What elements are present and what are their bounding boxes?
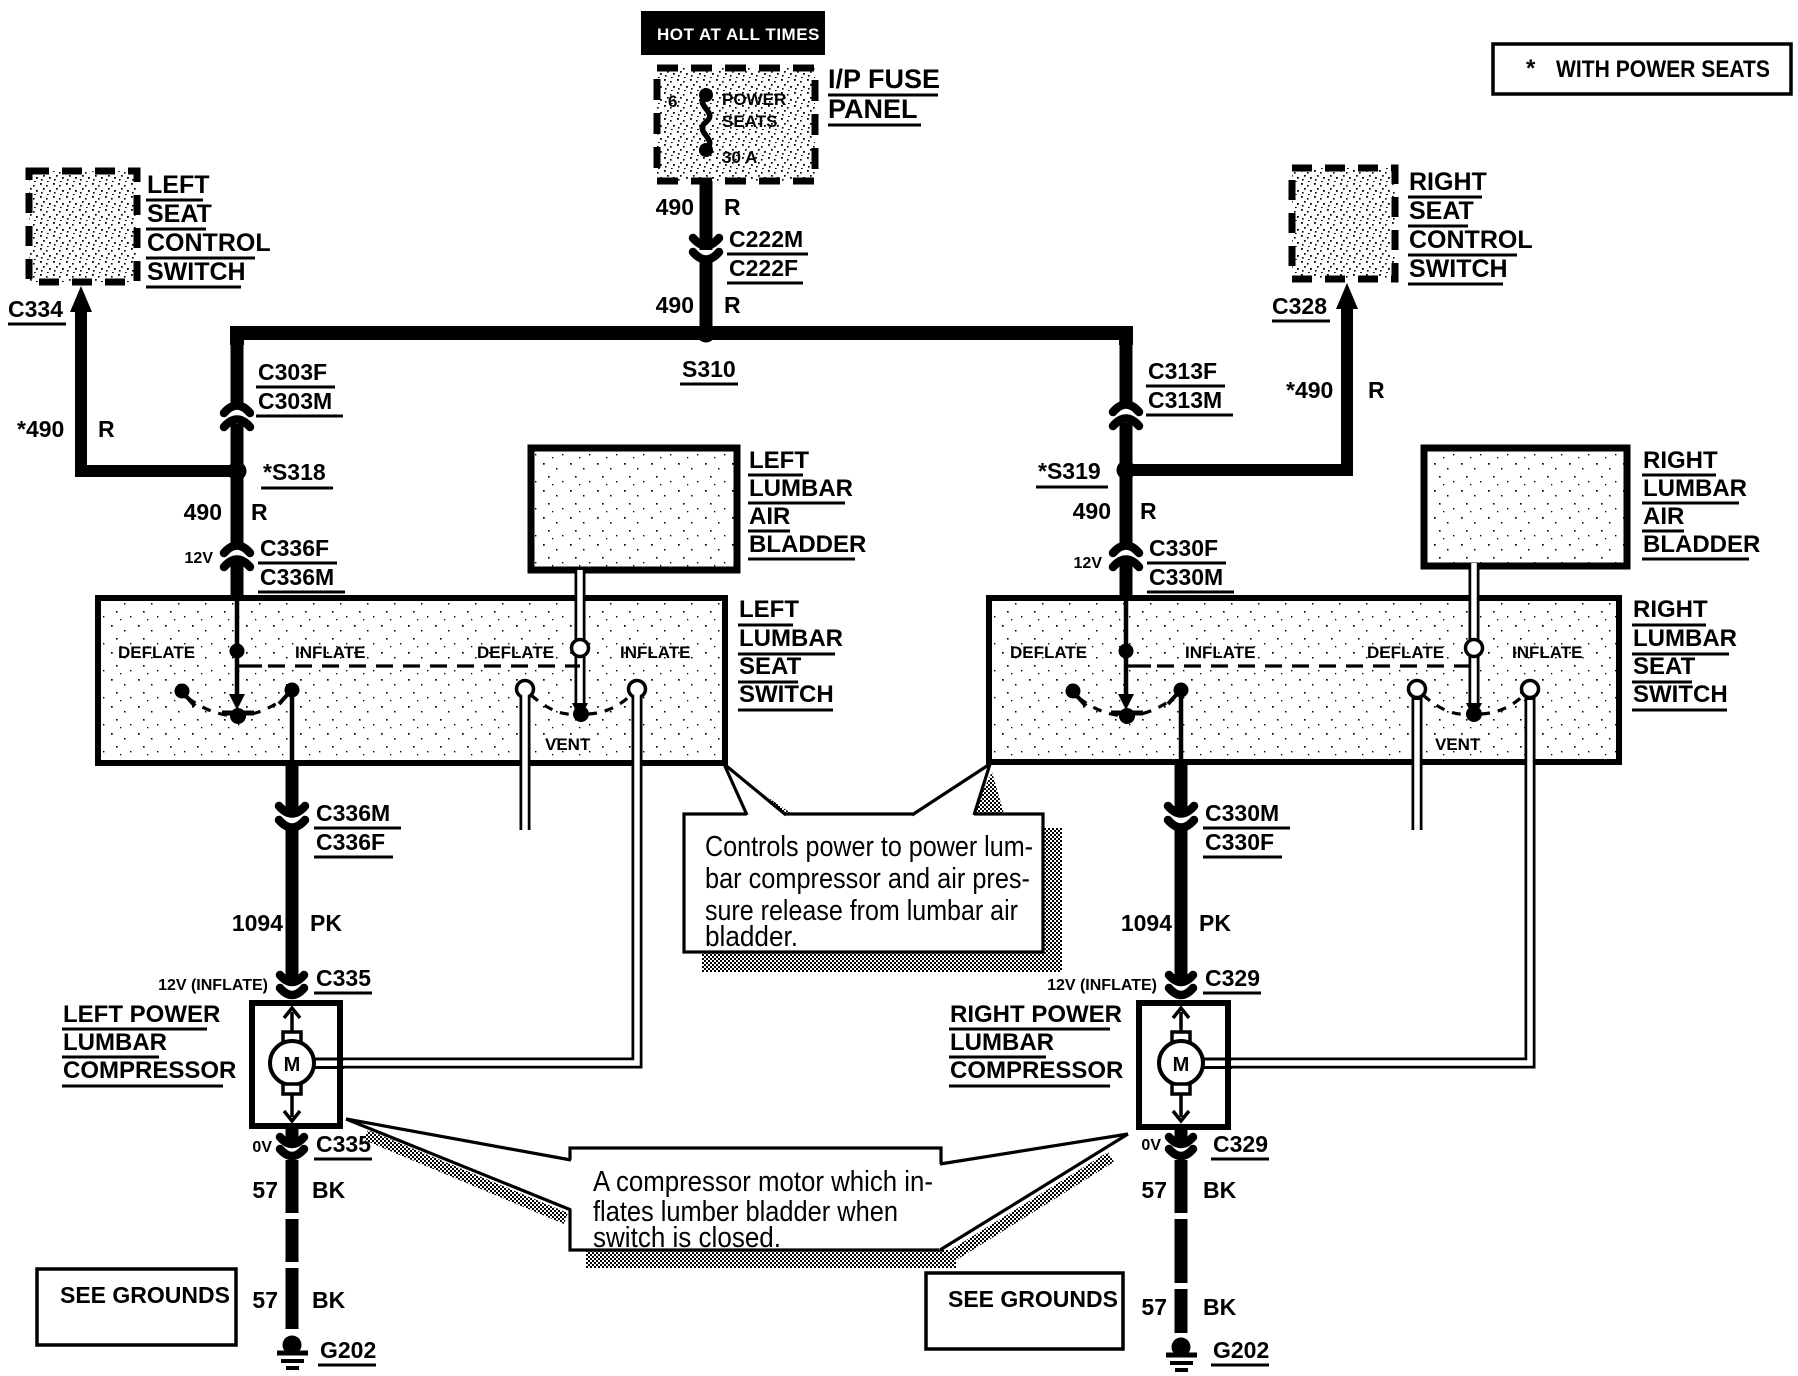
- svg-text:BK: BK: [1203, 1177, 1237, 1203]
- svg-text:switch is closed.: switch is closed.: [593, 1222, 781, 1254]
- svg-text:1094: 1094: [232, 910, 283, 936]
- callout switch function shadow: [702, 772, 1062, 972]
- svg-text:C303M: C303M: [258, 388, 332, 414]
- connector C222M/C222F: [693, 226, 808, 283]
- wire bus drop left: [231, 339, 244, 405]
- svg-text:R: R: [1368, 377, 1385, 403]
- hose left inflate to motor: [311, 694, 637, 1063]
- svg-text:LEFT: LEFT: [739, 596, 799, 623]
- svg-text:SEAT: SEAT: [1633, 653, 1696, 680]
- right lumbar air bladder box: [1424, 447, 1760, 566]
- svg-text:0V: 0V: [252, 1139, 272, 1156]
- svg-text:*: *: [1526, 55, 1536, 82]
- svg-text:G202: G202: [1213, 1337, 1269, 1363]
- connector C335 0V: [252, 1126, 372, 1159]
- connector C303F/C303M: [224, 359, 343, 427]
- svg-text:*S319: *S319: [1038, 458, 1101, 484]
- wire 490 R C222 to S310: [656, 261, 741, 330]
- svg-text:C330F: C330F: [1205, 829, 1274, 855]
- wire *490 R C328 to S319: [1133, 303, 1385, 470]
- node S310: [680, 324, 738, 385]
- svg-text:VENT: VENT: [545, 735, 591, 754]
- hose left bladder to switch: [575, 570, 586, 712]
- left lumbar seat switch box: [98, 596, 843, 763]
- svg-text:COMPRESSOR: COMPRESSOR: [950, 1057, 1123, 1084]
- callout compressor note shadow: [364, 1130, 1114, 1268]
- vent hose right (open): [1412, 697, 1423, 832]
- svg-text:C334: C334: [8, 296, 63, 322]
- svg-text:RIGHT: RIGHT: [1643, 447, 1718, 474]
- fuse element 30A: [668, 88, 786, 167]
- hose right bladder to switch: [1469, 563, 1480, 712]
- svg-text:*S318: *S318: [263, 459, 326, 485]
- see grounds note left: [37, 1269, 236, 1345]
- callout compressor note bubble: [346, 1119, 1128, 1254]
- callout switch function bubble: [684, 764, 1043, 953]
- svg-text:DEFLATE: DEFLATE: [1010, 643, 1087, 662]
- see grounds note right: [926, 1273, 1123, 1349]
- svg-text:LEFT: LEFT: [749, 447, 809, 474]
- svg-text:DEFLATE: DEFLATE: [1367, 643, 1444, 662]
- svg-text:RIGHT POWER: RIGHT POWER: [950, 1001, 1122, 1028]
- svg-text:R: R: [724, 292, 741, 318]
- node S319: [1036, 458, 1136, 487]
- svg-text:57: 57: [1141, 1177, 1167, 1203]
- connector C336F/C336M 12V: [185, 535, 345, 592]
- svg-text:0V: 0V: [1141, 1137, 1161, 1154]
- svg-text:C328: C328: [1272, 293, 1327, 319]
- svg-text:CONTROL: CONTROL: [1409, 226, 1533, 254]
- connector C334 arrow into left switch: [8, 286, 92, 324]
- ground G202 left: [277, 1336, 376, 1369]
- svg-text:490: 490: [656, 292, 694, 318]
- left seat control switch box: [29, 171, 271, 287]
- svg-text:LUMBAR: LUMBAR: [1633, 625, 1737, 652]
- svg-text:BLADDER: BLADDER: [1643, 531, 1760, 558]
- svg-text:57: 57: [252, 1287, 278, 1313]
- svg-text:SEAT: SEAT: [1409, 197, 1474, 225]
- ground G202 right: [1166, 1337, 1269, 1370]
- svg-text:30 A: 30 A: [722, 148, 757, 167]
- svg-text:POWER: POWER: [722, 90, 786, 109]
- bus wire S310: [237, 333, 1126, 345]
- svg-text:C222F: C222F: [729, 255, 798, 281]
- svg-text:C336F: C336F: [260, 535, 329, 561]
- svg-text:SEAT: SEAT: [147, 200, 212, 228]
- svg-text:12V (INFLATE): 12V (INFLATE): [158, 977, 268, 994]
- svg-text:12V (INFLATE): 12V (INFLATE): [1047, 977, 1157, 994]
- vent hose left (open): [520, 694, 531, 832]
- wire 1094 PK to C335: [232, 829, 343, 984]
- wire *490 R C334 to S318: [17, 306, 230, 471]
- motor M right: [1159, 1008, 1232, 1121]
- svg-text:bar compressor and air pres-: bar compressor and air pres-: [705, 863, 1030, 895]
- fuse F6 30A box (I/P fuse panel): [657, 68, 815, 181]
- left lumbar air bladder box: [531, 447, 866, 570]
- svg-text:I/P FUSE: I/P FUSE: [828, 64, 940, 94]
- wire right switch to C330M: [1175, 762, 1188, 816]
- svg-text:R: R: [724, 194, 741, 220]
- wire 490 R S319 to C330: [1073, 477, 1157, 545]
- svg-text:RIGHT: RIGHT: [1633, 596, 1708, 623]
- wire C336 to switch box: [231, 562, 244, 598]
- svg-text:SWITCH: SWITCH: [1409, 255, 1508, 283]
- svg-text:C329: C329: [1205, 965, 1260, 991]
- svg-text:6: 6: [668, 92, 677, 111]
- hose right inflate to motor: [1205, 697, 1530, 1063]
- svg-text:INFLATE: INFLATE: [1185, 643, 1256, 662]
- svg-text:LUMBAR: LUMBAR: [749, 475, 853, 502]
- note with power seats: [1493, 44, 1791, 94]
- svg-text:BK: BK: [1203, 1294, 1237, 1320]
- svg-text:INFLATE: INFLATE: [1512, 643, 1583, 662]
- svg-text:LEFT: LEFT: [147, 171, 210, 199]
- svg-text:C330F: C330F: [1149, 535, 1218, 561]
- svg-text:490: 490: [656, 194, 694, 220]
- svg-text:57: 57: [1141, 1294, 1167, 1320]
- right switch internals: [1010, 598, 1583, 762]
- svg-text:RIGHT: RIGHT: [1409, 168, 1487, 196]
- svg-text:M: M: [1173, 1054, 1190, 1076]
- wire C330 to switch box: [1120, 562, 1133, 598]
- svg-text:BK: BK: [312, 1177, 346, 1203]
- right lumbar seat switch box: [989, 596, 1737, 762]
- wire left switch to C336M: [286, 763, 299, 816]
- connector C329 0V: [1141, 1126, 1269, 1159]
- svg-text:AIR: AIR: [1643, 503, 1684, 530]
- wire 490 R S318 to C336: [184, 478, 268, 545]
- svg-text:C330M: C330M: [1205, 800, 1279, 826]
- svg-text:DEFLATE: DEFLATE: [477, 643, 554, 662]
- svg-text:S310: S310: [682, 356, 736, 382]
- svg-text:C313M: C313M: [1148, 387, 1222, 413]
- svg-text:SEE GROUNDS: SEE GROUNDS: [948, 1286, 1118, 1312]
- wire 57 BK to ground: [252, 1160, 345, 1329]
- left switch internals: [118, 598, 691, 763]
- svg-text:R: R: [1140, 498, 1157, 524]
- svg-text:COMPRESSOR: COMPRESSOR: [63, 1057, 236, 1084]
- svg-text:SWITCH: SWITCH: [739, 681, 834, 708]
- svg-text:WITH POWER SEATS: WITH POWER SEATS: [1556, 56, 1770, 83]
- wire 1094 PK to C329: [1121, 829, 1232, 984]
- node S318: [228, 459, 334, 488]
- svg-text:bladder.: bladder.: [705, 921, 798, 953]
- svg-text:C335: C335: [316, 1131, 371, 1157]
- wire C303 to S318: [231, 424, 244, 464]
- svg-text:LUMBAR: LUMBAR: [1643, 475, 1747, 502]
- connector C330M/C330F lower: [1168, 800, 1290, 857]
- right power lumbar compressor box: [949, 1001, 1228, 1127]
- wire 490 R fuse to C222: [656, 181, 741, 250]
- connector C313F/C313M: [1113, 358, 1233, 426]
- svg-text:HOT AT ALL TIMES: HOT AT ALL TIMES: [657, 25, 820, 44]
- svg-text:BLADDER: BLADDER: [749, 531, 866, 558]
- svg-text:C222M: C222M: [729, 226, 803, 252]
- svg-text:PANEL: PANEL: [828, 94, 918, 124]
- svg-text:CONTROL: CONTROL: [147, 229, 271, 257]
- svg-text:SEE GROUNDS: SEE GROUNDS: [60, 1282, 230, 1308]
- svg-text:*490: *490: [1286, 377, 1333, 403]
- svg-text:PK: PK: [1199, 910, 1231, 936]
- connector C329 12V inflate: [1047, 965, 1261, 995]
- svg-text:C329: C329: [1213, 1131, 1268, 1157]
- svg-text:A compressor motor which in-: A compressor motor which in-: [593, 1166, 933, 1198]
- connector C335 12V inflate: [158, 965, 372, 995]
- svg-text:C313F: C313F: [1148, 358, 1217, 384]
- svg-text:LUMBAR: LUMBAR: [950, 1029, 1054, 1056]
- right seat control switch box: [1292, 168, 1533, 284]
- svg-text:C330M: C330M: [1149, 564, 1223, 590]
- connector C330F/C330M 12V: [1074, 535, 1234, 592]
- svg-text:SWITCH: SWITCH: [1633, 681, 1728, 708]
- svg-text:C336M: C336M: [316, 800, 390, 826]
- svg-text:LUMBAR: LUMBAR: [739, 625, 843, 652]
- svg-text:SEATS: SEATS: [722, 112, 777, 131]
- svg-text:490: 490: [184, 499, 222, 525]
- svg-text:C335: C335: [316, 965, 371, 991]
- wire fuse internal: [704, 68, 709, 181]
- svg-text:DEFLATE: DEFLATE: [118, 643, 195, 662]
- svg-text:BK: BK: [312, 1287, 346, 1313]
- svg-text:LEFT POWER: LEFT POWER: [63, 1001, 220, 1028]
- svg-text:57: 57: [252, 1177, 278, 1203]
- svg-text:1094: 1094: [1121, 910, 1172, 936]
- svg-text:SEAT: SEAT: [739, 653, 802, 680]
- wire 57 BK to ground right: [1141, 1160, 1236, 1333]
- connector C328 arrow into right switch: [1272, 283, 1358, 321]
- svg-text:C336F: C336F: [316, 829, 385, 855]
- svg-text:M: M: [284, 1054, 301, 1076]
- wire bus drop right: [1120, 339, 1133, 404]
- svg-text:LUMBAR: LUMBAR: [63, 1029, 167, 1056]
- svg-text:490: 490: [1073, 498, 1111, 524]
- svg-text:12V: 12V: [185, 550, 214, 567]
- svg-text:G202: G202: [320, 1337, 376, 1363]
- svg-text:Controls power to power lum-: Controls power to power lum-: [705, 831, 1033, 863]
- wire C313 to S319: [1120, 423, 1133, 463]
- svg-text:C303F: C303F: [258, 359, 327, 385]
- svg-text:PK: PK: [310, 910, 342, 936]
- hot at all times banner: [641, 11, 825, 55]
- svg-text:12V: 12V: [1074, 555, 1103, 572]
- svg-text:SWITCH: SWITCH: [147, 258, 246, 286]
- left power lumbar compressor box: [62, 1001, 340, 1126]
- svg-text:R: R: [98, 416, 115, 442]
- svg-text:INFLATE: INFLATE: [620, 643, 691, 662]
- motor M left: [270, 1008, 344, 1121]
- svg-text:C336M: C336M: [260, 564, 334, 590]
- svg-text:AIR: AIR: [749, 503, 790, 530]
- connector C336M/C336F lower: [279, 800, 401, 857]
- label I/P FUSE PANEL: [828, 64, 940, 125]
- svg-text:*490: *490: [17, 416, 64, 442]
- svg-text:VENT: VENT: [1435, 735, 1481, 754]
- svg-text:INFLATE: INFLATE: [295, 643, 366, 662]
- svg-text:R: R: [251, 499, 268, 525]
